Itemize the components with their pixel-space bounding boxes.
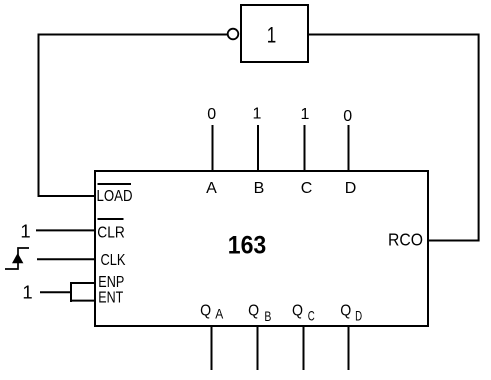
wire: C input [304,125,306,171]
inverter U1 output bubble [228,29,239,40]
svg-text:C: C [301,180,313,197]
svg-text:A: A [206,180,217,197]
CLR overline [98,218,124,220]
svg-text:B: B [254,180,265,197]
svg-text:1: 1 [301,106,310,123]
svg-text:B: B [264,308,271,324]
svg-text:163: 163 [228,231,267,259]
svg-text:RCO: RCO [388,229,423,249]
ENP/ENT tie bracket [70,282,95,302]
wire: inverter bubble to feedback corner [38,34,227,36]
svg-text:0: 0 [343,108,352,125]
counter U2 163 box [95,171,428,326]
wire: A input [212,125,214,171]
LOAD overline [98,183,132,185]
wire: QC output [303,326,305,370]
wire: B input [257,125,259,171]
svg-text:A: A [215,306,224,322]
pin label QC [292,302,315,323]
wire: QA output [211,326,213,370]
svg-text:Q: Q [340,302,351,319]
inverter U1 box [241,5,308,62]
wire: ENP/ENT input stub [40,291,71,293]
svg-text:CLR: CLR [97,224,125,241]
wire: CLK input stub [37,258,95,260]
svg-text:1: 1 [20,220,30,241]
wire: inverter input horizontal from riser [309,34,480,36]
svg-text:Q: Q [248,302,259,319]
wire: CLR input stub [36,229,95,231]
svg-text:1: 1 [267,22,277,47]
svg-text:D: D [345,180,357,197]
svg-text:0: 0 [207,106,216,123]
svg-text:1: 1 [253,105,262,122]
wire: feedback into LOAD pin [38,195,96,197]
svg-text:D: D [355,308,362,324]
svg-text:Q: Q [200,302,211,319]
svg-text:1: 1 [22,281,32,302]
pin label QB [248,302,271,324]
wire: feedback vertical drop [38,34,40,197]
wire: RCO output stub [427,240,480,242]
svg-text:ENT: ENT [98,289,123,306]
wire: D input [348,125,350,171]
pin label QD [340,302,362,323]
svg-text:C: C [308,307,315,323]
wire: RCO vertical riser [478,34,480,242]
svg-text:Q: Q [292,302,303,319]
svg-text:CLK: CLK [101,252,126,269]
svg-text:LOAD: LOAD [97,188,133,205]
clock edge symbol [5,248,29,269]
wire: QB output [257,326,259,370]
pin label QA [200,302,224,321]
svg-text:ENP: ENP [98,274,124,291]
wire: QD output [348,326,350,370]
